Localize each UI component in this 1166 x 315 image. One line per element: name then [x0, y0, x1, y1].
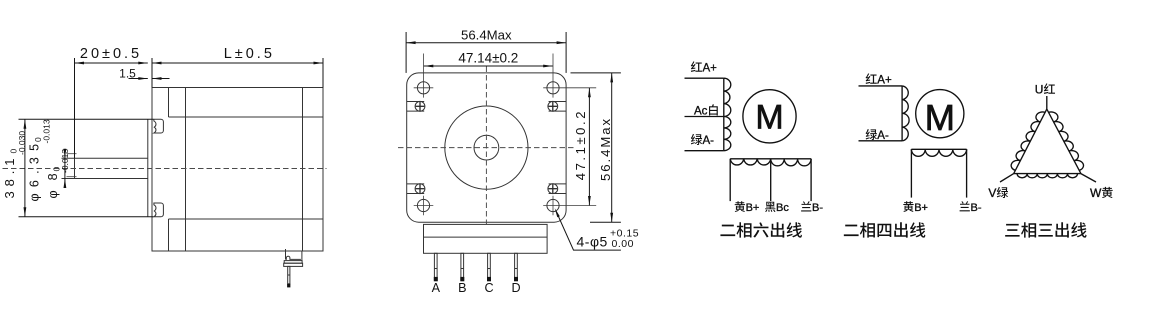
svg-text:-0.013: -0.013: [41, 119, 51, 143]
phi8 extension tick top: [67, 153, 77, 155]
label W黄: [1090, 186, 1113, 200]
shaft top line: [62, 157, 148, 159]
svg-text:B-: B-: [971, 202, 982, 214]
wire drop yellow B+ (4-wire): [910, 149, 912, 197]
phi8 extension tick bottom: [67, 176, 77, 178]
side view flange tab top: [154, 119, 164, 133]
dimension 38.1 boss diameter: [19, 119, 154, 217]
label 4-phi5 with leader: [555, 208, 639, 250]
caption 二相六出线: [720, 222, 802, 237]
dimension 56.4Max vertical: [571, 73, 621, 222]
front view mounting hole 2: [543, 54, 596, 98]
svg-text:20±0.5: 20±0.5: [80, 46, 142, 62]
label 红A+ (4-wire): [866, 73, 892, 86]
side view front endcap line: [185, 88, 187, 252]
dimension 47.1±0.2 vertical: [573, 88, 591, 206]
label 兰B- (4-wire): [960, 201, 982, 214]
svg-text:B-: B-: [812, 202, 823, 214]
front view assembly screw 4: [548, 184, 566, 194]
wire drop blue B- (4-wire): [966, 149, 968, 197]
wire lead red A+: [685, 77, 724, 79]
wire lead green A- (4-wire): [859, 140, 903, 142]
svg-text:C: C: [484, 281, 493, 295]
wire drop black Bc: [770, 159, 772, 201]
label U红: [1035, 83, 1055, 97]
dimension L±0.5: [152, 46, 323, 88]
caption 三相三出线: [1005, 222, 1086, 237]
dimension phi6.35 shaft: [64, 149, 67, 188]
svg-text:U: U: [1035, 83, 1044, 97]
pin A: [432, 253, 441, 295]
label phi8 0/-0.013: [46, 149, 70, 199]
label Ac白: [694, 104, 718, 117]
svg-text:A: A: [432, 281, 441, 295]
delta winding V-W (bottom side): [1014, 174, 1081, 178]
label 兰B-: [801, 201, 823, 214]
motor symbol M2: [916, 90, 964, 138]
front view flange outline: [407, 73, 566, 222]
svg-text:D: D: [511, 281, 520, 295]
dimension 1.5: [119, 67, 169, 81]
svg-text:W: W: [1090, 186, 1102, 200]
svg-text:56.4Max: 56.4Max: [461, 27, 512, 42]
svg-text:A+: A+: [703, 63, 718, 75]
label 红A+: [691, 61, 717, 74]
label V绿: [988, 186, 1008, 200]
side view pilot boss front line: [147, 119, 149, 217]
front view mounting hole 3: [414, 196, 434, 216]
delta winding U-V (left side): [1011, 109, 1047, 174]
front view assembly screw 3: [407, 184, 425, 194]
pin B: [458, 253, 466, 295]
front view pilot boss circle: [445, 106, 528, 189]
front view horizontal centerline: [398, 147, 574, 149]
svg-text:4-φ5: 4-φ5: [577, 233, 608, 249]
svg-text:Ac: Ac: [694, 106, 708, 118]
delta winding U-W (right side): [1047, 109, 1084, 174]
svg-text:A-: A-: [703, 135, 715, 147]
label 38.1 0/-0.030: [2, 131, 27, 199]
pin D: [511, 253, 520, 295]
front view assembly screw 2: [548, 101, 566, 111]
label 绿A-: [691, 134, 714, 147]
side view centerline: [3, 168, 327, 170]
side view front flange inner edge: [168, 88, 170, 252]
wire stub U: [1046, 96, 1048, 109]
svg-text:M: M: [925, 97, 955, 138]
wire lead Ac white: [685, 116, 724, 118]
svg-text:0.00: 0.00: [612, 238, 634, 250]
dimension 47.14±0.2 horizontal: [424, 50, 553, 67]
caption 二相四出线: [844, 222, 926, 237]
label phi6.35 0/-0.013: [28, 119, 52, 201]
wire drop yellow B+: [729, 159, 731, 201]
svg-text:47.1±0.2: 47.1±0.2: [573, 109, 588, 180]
front view mounting hole 4: [543, 196, 596, 216]
side view rear endcap line: [302, 88, 304, 252]
front view shaft circle: [474, 135, 499, 160]
coil phase A (four-wire): [902, 86, 909, 141]
label 黄B+: [735, 201, 760, 214]
side view flange tab bottom: [154, 203, 164, 217]
shaft end line: [74, 58, 76, 179]
svg-text:V: V: [988, 186, 996, 200]
dimension 20±0.5: [75, 46, 148, 158]
front view vertical centerline: [485, 67, 487, 225]
wire drop blue B-: [810, 159, 812, 201]
svg-text:56.4Max: 56.4Max: [598, 117, 613, 181]
wire lead V: [1000, 174, 1014, 182]
svg-text:L±0.5: L±0.5: [224, 46, 275, 62]
side view body corner chamfer bottom: [169, 218, 324, 220]
side view body corner chamfer top: [169, 116, 324, 118]
side view motor body outline: [152, 88, 323, 252]
coil phase A (six-wire): [724, 78, 731, 151]
svg-text:Bc: Bc: [776, 202, 789, 214]
svg-text:φ6.35: φ6.35: [28, 138, 42, 202]
pin C: [484, 253, 493, 295]
coil phase B (four-wire): [911, 149, 966, 156]
svg-text:-0.030: -0.030: [17, 131, 27, 155]
svg-text:38.1: 38.1: [2, 154, 17, 199]
label 黄B+ (4-wire): [903, 201, 928, 214]
label 绿A- (4-wire): [866, 129, 889, 142]
dimension 56.4Max horizontal: [406, 27, 566, 73]
side view lead connector: [284, 249, 303, 287]
front view mounting hole 1: [414, 54, 434, 98]
svg-text:B+: B+: [914, 202, 928, 214]
svg-text:M: M: [755, 99, 783, 137]
svg-text:A+: A+: [877, 75, 892, 87]
wire lead red A+ (4-wire): [859, 85, 903, 87]
front view assembly screw 1: [407, 101, 425, 111]
wire lead W: [1081, 174, 1096, 182]
label 黑Bc: [765, 202, 789, 214]
svg-text:B+: B+: [746, 202, 760, 214]
front view connector block: [424, 224, 548, 253]
svg-text:B: B: [458, 281, 466, 295]
svg-text:A-: A-: [877, 130, 889, 142]
svg-text:47.14±0.2: 47.14±0.2: [458, 50, 518, 65]
motor symbol M1: [743, 90, 796, 143]
svg-text:-0.013: -0.013: [60, 149, 70, 173]
wire lead green A-: [685, 150, 724, 152]
coil phase B (six-wire): [730, 159, 811, 166]
shaft bottom line: [62, 178, 148, 180]
